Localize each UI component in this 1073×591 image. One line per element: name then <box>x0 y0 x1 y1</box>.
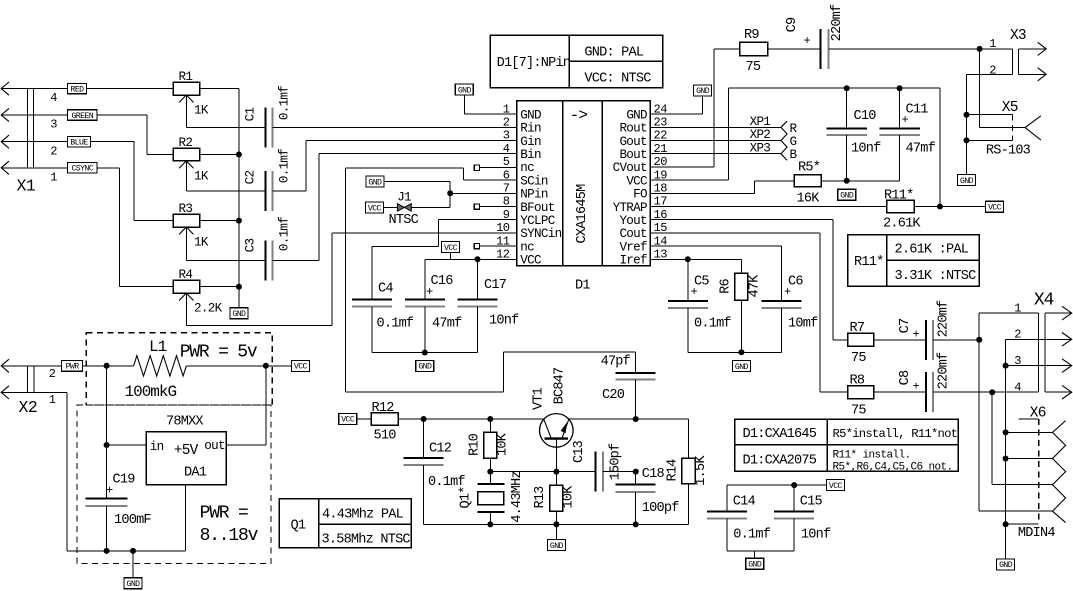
no-connect pin5 <box>474 165 516 170</box>
wire emitter rail to R14 <box>569 416 689 458</box>
transistor VT1 <box>532 367 574 472</box>
svg-text:220mf: 220mf <box>937 352 952 389</box>
wire base node <box>490 469 595 475</box>
resistor R8 <box>848 374 874 419</box>
IC D1 right pin names <box>613 108 648 267</box>
svg-text:Gout: Gout <box>619 135 647 149</box>
wire pin6 SCin to C20 <box>346 168 636 392</box>
wire DA1 to ground rail <box>67 485 185 554</box>
wire C14 C15 ground <box>727 551 794 558</box>
svg-text:->: -> <box>570 107 588 125</box>
svg-text:C8: C8 <box>898 370 913 385</box>
ground sym X6 <box>997 559 1015 570</box>
svg-text:SYNCin: SYNCin <box>520 227 561 241</box>
wire Cout to R8 <box>650 233 847 392</box>
svg-text:C19: C19 <box>113 472 136 487</box>
dashed box L1 filter <box>86 333 272 405</box>
svg-text:10mf: 10mf <box>788 316 818 331</box>
wire to DA1 in <box>104 366 147 448</box>
svg-text:GND: GND <box>840 192 854 201</box>
svg-text:Bin: Bin <box>520 148 541 162</box>
connector X1 <box>1 82 57 196</box>
svg-text:1: 1 <box>49 393 56 407</box>
net label PWR <box>1 360 82 371</box>
svg-text:+: + <box>913 327 920 341</box>
wire X3 pin2 to ground <box>964 74 1013 174</box>
vcc sym at C15 <box>826 480 844 491</box>
wire X4 pin2 pin3 ground trunk <box>1003 339 1039 527</box>
svg-text:CSYNC: CSYNC <box>71 165 93 174</box>
svg-text:2: 2 <box>989 63 996 77</box>
connector X6 <box>1006 406 1066 542</box>
svg-text:X2: X2 <box>19 398 38 417</box>
svg-text:GND: GND <box>735 363 749 372</box>
svg-text:75: 75 <box>746 60 761 75</box>
ground sym at pin1 <box>455 84 473 95</box>
svg-text:1K: 1K <box>194 170 209 184</box>
svg-text:GND: GND <box>458 86 472 95</box>
svg-text:R5*: R5* <box>798 160 820 175</box>
svg-text:VCC: VCC <box>294 363 308 372</box>
svg-text:1K: 1K <box>194 236 209 250</box>
wire NPin to J1 and GND <box>384 182 517 208</box>
wire pin24 GND <box>650 96 702 114</box>
svg-text:+: + <box>426 285 433 299</box>
svg-text:4: 4 <box>50 91 57 105</box>
svg-text:2.2K: 2.2K <box>194 302 223 316</box>
svg-text:16K: 16K <box>797 192 821 207</box>
svg-text:YCLPC: YCLPC <box>520 214 555 228</box>
wire R3 wiper to C3 <box>186 259 265 261</box>
svg-text:Cout: Cout <box>619 227 647 241</box>
svg-text:1: 1 <box>1014 301 1021 315</box>
resistor R5* <box>794 160 821 206</box>
svg-text:1K: 1K <box>194 104 209 118</box>
resistor R11* <box>883 188 921 231</box>
svg-text:GND: GND <box>999 561 1013 570</box>
svg-text:C1: C1 <box>244 108 258 122</box>
svg-text:0.1mf: 0.1mf <box>733 527 770 542</box>
svg-text:VCC: VCC <box>341 416 355 425</box>
svg-text:CXA1645M: CXA1645M <box>575 184 590 244</box>
svg-text:Yout: Yout <box>619 214 647 228</box>
capacitor C7 <box>874 300 952 360</box>
net label BLUE <box>68 137 91 148</box>
wire CSYNC to R4 <box>1 168 173 287</box>
wire FO to R5 <box>650 181 794 194</box>
wire R1 out to bus <box>200 88 239 90</box>
connector X2 <box>1 359 56 417</box>
svg-text:2: 2 <box>50 144 57 158</box>
wire PWR to L1 <box>83 363 134 369</box>
svg-text:VCC: VCC <box>444 244 458 253</box>
svg-text:R10: R10 <box>468 433 483 456</box>
capacitor C10 <box>826 88 881 181</box>
svg-text:R12: R12 <box>372 401 395 416</box>
svg-text:+: + <box>913 380 920 394</box>
svg-text:X3: X3 <box>1010 28 1026 44</box>
svg-text:3: 3 <box>503 129 510 143</box>
wire R2 out to bus <box>200 154 239 156</box>
svg-text:75: 75 <box>851 404 866 419</box>
svg-text:+: + <box>804 34 811 48</box>
svg-text:R7: R7 <box>850 321 865 336</box>
svg-text:RED: RED <box>71 85 85 94</box>
wire C14 C15 top <box>727 482 826 488</box>
svg-text:J1: J1 <box>397 191 411 205</box>
connector X5 <box>967 49 1041 159</box>
svg-text:R5*,R6,C4,C5,C6 not.: R5*,R6,C4,C5,C6 not. <box>833 462 953 474</box>
svg-text:2: 2 <box>503 116 510 130</box>
svg-text:R13: R13 <box>533 486 548 509</box>
ground sym power <box>124 551 142 589</box>
resistor R7 <box>848 321 874 366</box>
table D1 variants <box>735 419 958 473</box>
table R11 values <box>848 235 979 287</box>
capacitor C5 <box>668 274 732 331</box>
svg-text:BLUE: BLUE <box>70 139 88 148</box>
svg-text:10nf: 10nf <box>489 314 519 329</box>
vcc sym at pin12 <box>442 242 460 260</box>
svg-text:R9: R9 <box>744 28 759 43</box>
ground sym at C10 <box>838 189 856 200</box>
resistor R13 <box>533 472 577 525</box>
svg-text:C16: C16 <box>431 274 454 289</box>
capacitor C17 <box>458 278 520 329</box>
svg-text:DA1: DA1 <box>184 465 207 480</box>
svg-text:XP2: XP2 <box>750 128 771 142</box>
svg-text:C10: C10 <box>854 109 877 124</box>
svg-text:Rout: Rout <box>619 122 647 136</box>
svg-text:R: R <box>790 122 798 136</box>
svg-text:MDIN4: MDIN4 <box>1018 526 1055 541</box>
IC D1 left pin names <box>520 108 561 267</box>
svg-text:GND: GND <box>626 108 647 122</box>
svg-text:4.43MHz: 4.43MHz <box>510 471 525 523</box>
svg-text:VCC: VCC <box>829 482 843 491</box>
wire C3 to pin4 Bin <box>272 154 516 261</box>
wire R4 out to bus <box>200 286 239 288</box>
svg-text:R3: R3 <box>179 202 193 216</box>
net label CSYNC <box>68 163 98 174</box>
ground sym below R bus <box>230 308 248 319</box>
svg-text:1: 1 <box>50 170 57 184</box>
svg-text:220mf: 220mf <box>830 4 845 41</box>
svg-text:100pf: 100pf <box>642 501 679 516</box>
svg-text:220mf: 220mf <box>937 300 952 337</box>
capacitor C15 <box>774 485 831 551</box>
svg-text:C3: C3 <box>244 239 258 253</box>
regulator DA1 78MXX <box>146 414 226 485</box>
svg-text:R8: R8 <box>850 374 865 389</box>
junction dots on R bus <box>236 152 242 290</box>
svg-text:3: 3 <box>50 118 57 132</box>
svg-text:Vref: Vref <box>619 240 647 254</box>
svg-text:X1: X1 <box>17 177 36 196</box>
IC D1 left pin numbers <box>496 102 510 261</box>
wire Iref pin13 <box>650 256 741 301</box>
wire C9 to X3 pin1 <box>828 46 1012 52</box>
svg-text:B: B <box>790 148 798 162</box>
wire DA1 out to VCC node <box>226 366 266 445</box>
svg-text:+: + <box>784 285 791 299</box>
svg-text:YTRAP: YTRAP <box>613 201 647 215</box>
IC D1 right pin numbers <box>654 102 668 261</box>
svg-text:2: 2 <box>49 367 56 381</box>
svg-text:GND: GND <box>960 177 974 186</box>
svg-text:4: 4 <box>503 142 510 156</box>
wire YTRAP to R11 <box>650 206 886 208</box>
ground sym C14 <box>746 558 764 569</box>
svg-text:GND: GND <box>232 310 246 319</box>
wire Vref pin14 to C6 <box>650 246 781 301</box>
wire C1 to pin2 Rin <box>272 126 516 128</box>
wire R3 out to bus <box>200 220 239 222</box>
ground sym C16 bus <box>416 360 434 371</box>
capacitor C2 <box>244 149 292 211</box>
svg-text:10K: 10K <box>496 432 511 456</box>
svg-text:Rin: Rin <box>520 122 541 136</box>
net label GREEN <box>68 110 98 121</box>
svg-text:R5*install, R11*not: R5*install, R11*not <box>833 427 958 441</box>
wire pin10 SYNCin to R4 wiper <box>186 233 516 326</box>
svg-text:D1[7]:NPin: D1[7]:NPin <box>497 56 571 71</box>
svg-text:BC847: BC847 <box>553 367 568 404</box>
svg-text:G: G <box>790 135 797 149</box>
svg-text:CVout: CVout <box>613 161 647 175</box>
svg-text:Q1*: Q1* <box>459 486 474 508</box>
wire L1 to VCC <box>186 363 291 369</box>
capacitor C1 <box>244 86 292 148</box>
svg-text:8..18v: 8..18v <box>200 526 259 546</box>
wire pin1 GND <box>464 95 516 114</box>
svg-text:C20: C20 <box>602 388 625 403</box>
svg-text:C2: C2 <box>244 171 258 185</box>
svg-text:XP1: XP1 <box>750 115 771 129</box>
vcc sym at R11 <box>986 201 1004 212</box>
ground sym R6 bus <box>732 361 750 372</box>
svg-text:D1:CXA2075: D1:CXA2075 <box>743 453 817 468</box>
svg-text:nc: nc <box>520 240 534 254</box>
svg-text:0.1mf: 0.1mf <box>278 149 292 183</box>
svg-text:GND: GND <box>368 178 382 187</box>
svg-text:+: + <box>106 484 113 498</box>
svg-text:C13: C13 <box>572 440 587 463</box>
svg-text:X4: X4 <box>1034 290 1054 310</box>
svg-text:D1:CXA1645: D1:CXA1645 <box>743 427 817 442</box>
svg-text:3.58Mhz NTSC: 3.58Mhz NTSC <box>322 533 411 548</box>
capacitor C19 <box>86 445 152 551</box>
oscillator top rail <box>398 416 544 422</box>
svg-text:C17: C17 <box>484 278 507 293</box>
capacitor C14 <box>707 485 771 551</box>
wire VCC pin19 to top bus <box>650 85 940 180</box>
svg-text:150pf: 150pf <box>609 443 624 480</box>
capacitor C9 <box>768 4 845 69</box>
resistor R2 <box>173 136 209 191</box>
svg-text:3.31K :NTSC: 3.31K :NTSC <box>895 269 977 284</box>
svg-text:C14: C14 <box>733 494 756 509</box>
svg-text:Q1: Q1 <box>291 519 306 534</box>
svg-text:C11: C11 <box>906 103 929 118</box>
capacitor C6 <box>762 274 819 331</box>
svg-text:510: 510 <box>374 429 397 444</box>
wire R1 wiper to C1 <box>186 126 265 128</box>
wire R2 wiper to C2 <box>186 190 265 192</box>
svg-text:BFout: BFout <box>520 201 554 215</box>
svg-text:0.1mf: 0.1mf <box>694 316 731 331</box>
svg-text:47pf: 47pf <box>601 355 631 370</box>
bus wire to ground <box>238 89 240 308</box>
svg-text:0.1mf: 0.1mf <box>278 86 292 120</box>
svg-text:GND: GND <box>127 580 141 589</box>
svg-text:L1: L1 <box>149 338 167 356</box>
svg-text:C15: C15 <box>800 494 823 509</box>
table Q1 values <box>279 499 411 548</box>
svg-text:100mF: 100mF <box>114 513 151 528</box>
svg-text:GND: GND <box>748 561 762 570</box>
svg-text:GND: GND <box>696 87 710 96</box>
svg-text:1: 1 <box>989 37 996 51</box>
svg-text:R1: R1 <box>179 70 193 84</box>
capacitor C4 <box>352 282 414 332</box>
svg-text:XP3: XP3 <box>750 141 771 155</box>
capacitor C8 <box>874 352 952 412</box>
svg-text:R14: R14 <box>666 459 681 482</box>
wire C2 to pin3 Gin <box>272 141 516 192</box>
ground sym X3 shield <box>958 175 976 186</box>
svg-text:100mkG: 100mkG <box>125 383 177 401</box>
wire R11 to VCC <box>914 88 986 209</box>
wire Yout to R7 <box>650 220 847 340</box>
svg-text:GND: GND <box>520 108 541 122</box>
resistor R1 <box>173 70 209 127</box>
svg-text:+5V: +5V <box>174 443 199 459</box>
svg-text:X6: X6 <box>1030 406 1046 422</box>
svg-text:47mf: 47mf <box>906 142 936 157</box>
svg-text:0.1mf: 0.1mf <box>278 217 292 251</box>
svg-text:Iref: Iref <box>619 254 647 268</box>
test points XP1 XP2 XP3 <box>650 115 797 162</box>
svg-text:GND: PAL: GND: PAL <box>584 46 644 61</box>
wire RED to R1 <box>1 88 173 90</box>
ground sym at pin24 <box>694 85 712 96</box>
svg-text:VCC: VCC <box>368 204 382 213</box>
svg-text:VT1: VT1 <box>532 387 547 410</box>
wire X2 pin1 ground <box>1 392 67 551</box>
resistor R4 <box>173 268 223 325</box>
resistor R9 <box>740 28 768 75</box>
resistor R10 <box>468 419 511 472</box>
net label RED <box>68 83 87 94</box>
svg-text:Gin: Gin <box>520 135 541 149</box>
wire R5 to ground and C11 <box>821 178 899 184</box>
svg-text:+: + <box>902 113 909 127</box>
svg-text:4: 4 <box>1014 380 1021 394</box>
wire caps to ground bus <box>372 306 478 355</box>
svg-text:VCC: NTSC: VCC: NTSC <box>584 72 651 87</box>
svg-text:X5: X5 <box>1002 100 1018 116</box>
vcc sym at R12 <box>339 413 357 424</box>
oscillator ground rail <box>424 521 689 527</box>
svg-text:R4: R4 <box>179 268 193 282</box>
connector X3 <box>989 28 1046 81</box>
svg-text:GREEN: GREEN <box>71 112 93 121</box>
resistor R3 <box>173 202 209 260</box>
ground sym at R13 <box>547 524 565 551</box>
svg-text:C4: C4 <box>378 282 393 297</box>
svg-text:0.1mf: 0.1mf <box>377 317 414 332</box>
text PWR 8 18v <box>200 503 259 546</box>
wire C7 to X4 pin1 and X6 <box>933 313 1052 511</box>
svg-text:2.61K :PAL: 2.61K :PAL <box>895 243 969 258</box>
capacitor C12 <box>404 419 466 524</box>
svg-text:75: 75 <box>851 351 866 366</box>
svg-text:5: 5 <box>503 155 510 169</box>
wire pin9 YCLPC to C4 <box>372 220 517 300</box>
capacitor C18 <box>616 467 680 524</box>
crystal Q1* <box>459 469 526 525</box>
capacitor C3 <box>244 217 292 281</box>
capacitor C13 <box>556 440 635 491</box>
svg-text:+: + <box>691 285 698 299</box>
wire BLUE to R3 <box>1 142 173 221</box>
svg-text:C7: C7 <box>898 318 913 333</box>
svg-text:VCC: VCC <box>520 254 542 268</box>
jumper J1 <box>389 191 419 228</box>
no-connect pin11 <box>474 243 516 248</box>
svg-text:SCin: SCin <box>520 174 548 188</box>
svg-text:C18: C18 <box>642 467 665 482</box>
vcc sym power <box>291 360 309 371</box>
svg-text:VCC: VCC <box>988 204 1002 213</box>
svg-text:D1: D1 <box>575 278 590 293</box>
svg-text:R6: R6 <box>719 279 734 294</box>
svg-text:PWR: PWR <box>66 363 80 372</box>
svg-text:1.5K: 1.5K <box>694 455 709 486</box>
wire GREEN to R2 <box>1 115 173 155</box>
capacitor C11 <box>879 88 935 181</box>
svg-text:4.43Mhz PAL: 4.43Mhz PAL <box>322 507 404 522</box>
svg-text:C9: C9 <box>785 17 800 32</box>
svg-text:R11* install.: R11* install. <box>833 450 911 462</box>
svg-text:FO: FO <box>633 188 647 202</box>
svg-text:NTSC: NTSC <box>389 213 419 228</box>
svg-text:78MXX: 78MXX <box>166 414 203 429</box>
IC D1 CXA1645M body <box>517 101 651 293</box>
svg-text:47mf: 47mf <box>432 317 462 332</box>
table D1 NPin modes <box>490 35 662 87</box>
resistor R12 <box>357 401 398 444</box>
svg-text:GND: GND <box>550 542 564 551</box>
inductor L1 <box>125 338 187 401</box>
svg-text:in: in <box>150 440 164 454</box>
svg-text:R11*: R11* <box>884 188 913 203</box>
svg-text:2.61K: 2.61K <box>883 217 921 232</box>
svg-text:PWR =: PWR = <box>200 503 248 523</box>
ground sym at NPin <box>366 176 384 187</box>
svg-text:C12: C12 <box>429 441 452 456</box>
wire X6 to ground <box>1005 524 1007 559</box>
svg-text:GND: GND <box>418 363 432 372</box>
svg-text:10nf: 10nf <box>851 142 881 157</box>
vcc sym at J1 <box>365 202 383 213</box>
resistor R6 <box>719 273 763 300</box>
svg-text:out: out <box>204 439 225 453</box>
connector X4 <box>1014 290 1071 399</box>
wire pin12 VCC to C16 C17 <box>425 256 517 299</box>
dashed box regulator <box>77 405 271 563</box>
